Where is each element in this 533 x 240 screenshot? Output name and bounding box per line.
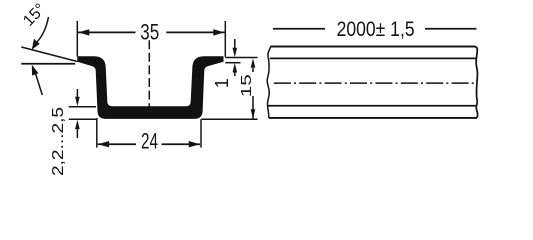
- dim 24 extension line left: [96, 118, 98, 148]
- dim 24 arrow left: [98, 141, 109, 147]
- dim 2,2...2,5 arrow up: [75, 120, 80, 130]
- side view center line (dash-dot): [274, 82, 476, 84]
- dim 15 dimension line: [252, 68, 254, 119]
- dim 35 arrow right: [213, 29, 224, 35]
- angle 15 deg horizontal reference line: [21, 63, 75, 65]
- dim 15 bottom extension line: [202, 118, 258, 120]
- dim 1 arrow up: [233, 63, 238, 73]
- dim 35 extension line left: [76, 21, 78, 57]
- dim 24 extension line right: [200, 119, 202, 147]
- dim 15 label: [239, 74, 255, 97]
- svg-text:2,2...2,5: 2,2...2,5: [50, 107, 67, 176]
- side view bottom line: [269, 117, 477, 119]
- side view right edge: [475, 47, 478, 118]
- svg-text:15°: 15°: [20, 1, 49, 30]
- dim 2000 dimension line: [273, 28, 477, 30]
- angle 15 deg lower arrow: [36, 74, 43, 96]
- dim 35 extension line right: [224, 21, 226, 57]
- svg-text:24: 24: [141, 128, 158, 153]
- dim 1 lower extension line: [225, 62, 240, 64]
- side view top line: [270, 46, 475, 48]
- side view third line: [268, 105, 476, 107]
- dim 2,2...2,5 arrow down: [76, 89, 78, 98]
- side view second line: [270, 57, 477, 59]
- dim 1 upper extension line (also dim 15 top): [225, 57, 257, 59]
- angle 15 deg sloped line: [21, 47, 77, 62]
- dim 2,2...2,5 label: [50, 107, 67, 176]
- center line (cross-section): [148, 40, 150, 119]
- dim 1 arrow down: [234, 39, 236, 48]
- dim 24 dimension line: [98, 143, 200, 145]
- dim 35 dimension line: [78, 31, 225, 33]
- svg-text:2000± 1,5: 2000± 1,5: [337, 18, 415, 41]
- dim 15 arrow up: [251, 58, 256, 67]
- svg-text:15: 15: [239, 74, 255, 97]
- dim 24 arrow right: [189, 141, 200, 147]
- dim 1 label: [212, 78, 232, 88]
- dim 2,2...2,5 upper extension line: [69, 106, 96, 108]
- svg-text:35: 35: [140, 19, 159, 44]
- side view left edge: [267, 47, 271, 118]
- svg-text:1: 1: [212, 78, 232, 88]
- rail cross-section profile (hat / DIN rail): [77, 56, 223, 119]
- dim 35 arrow left: [78, 29, 89, 35]
- angle 15 deg label: [20, 1, 49, 30]
- dim 15 arrow down: [251, 109, 256, 119]
- angle 15 deg arc leader with arrow: [35, 17, 49, 45]
- dim 2,2...2,5 lower extension line: [69, 118, 96, 120]
